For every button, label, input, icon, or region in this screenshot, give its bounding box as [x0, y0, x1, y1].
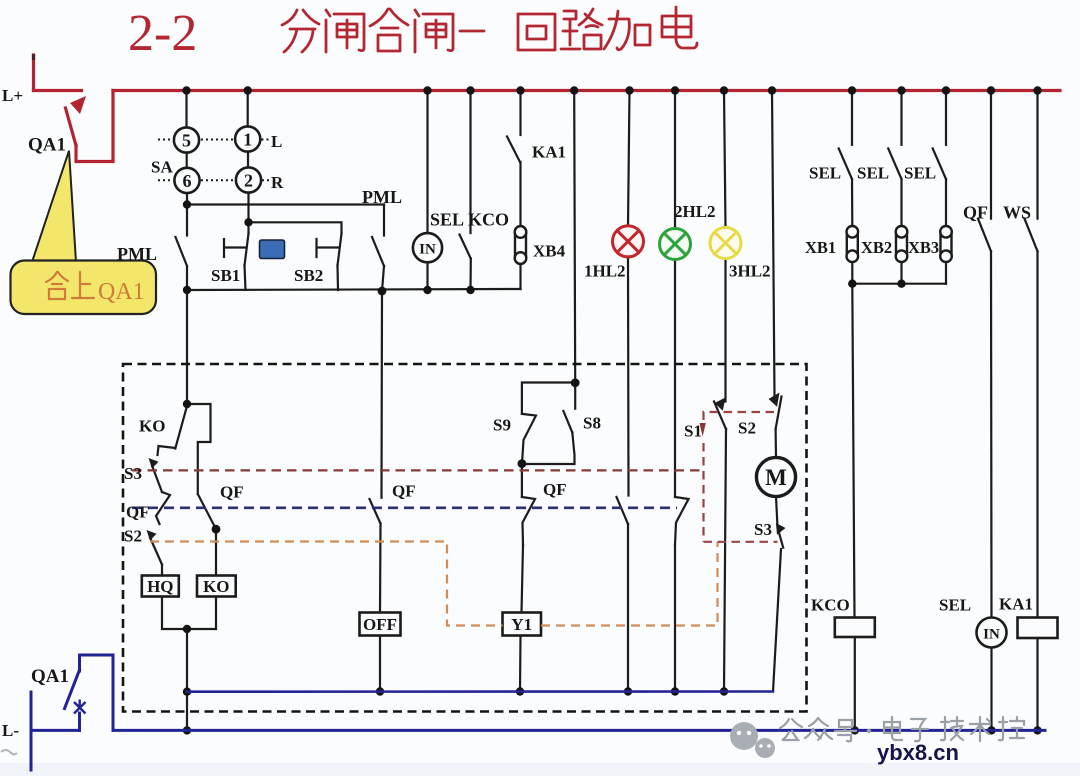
contact QF right blade: [978, 219, 991, 252]
motor M circle: [756, 457, 795, 496]
wire node C horizontal to SB2: [249, 222, 342, 233]
wire IN to rail: [426, 262, 428, 290]
svg-text:SEL: SEL: [809, 164, 841, 183]
wire node G down to blue rails: [186, 629, 188, 730]
char 上 small: [72, 272, 94, 298]
coil Y1 box: [503, 613, 542, 636]
svg-text:QF: QF: [392, 482, 416, 501]
wire WS down to coil KA1: [1036, 251, 1038, 617]
char 众: [805, 718, 832, 740]
char 电: [884, 717, 902, 740]
lamp 2HL2 green: [660, 229, 691, 260]
wire x628 to inner rail: [627, 524, 629, 692]
wire lamp 2HL2 down: [674, 260, 676, 498]
SA selector circle 6: [174, 168, 199, 193]
contact PML right blade: [372, 237, 384, 266]
svg-text:QA1: QA1: [31, 666, 69, 687]
SA selector circle 5: [174, 127, 199, 152]
wire SEL2 to fuse XB2: [900, 179, 902, 226]
SA selector circle 1: [235, 126, 260, 151]
dashed annotation path orange left: [150, 542, 503, 626]
arrow S2 left: [147, 530, 157, 541]
wire S1 to inner rail: [724, 429, 726, 692]
wire bus to lamp 2HL2: [674, 91, 676, 229]
svg-text:SEL: SEL: [857, 164, 889, 183]
svg-text:QF: QF: [963, 203, 988, 223]
callout bubble pointer: [32, 151, 76, 262]
svg-text:SEL: SEL: [430, 210, 464, 230]
svg-text:S3: S3: [124, 464, 142, 483]
svg-text:S8: S8: [583, 414, 601, 433]
char 公: [780, 719, 802, 740]
breaker QA1 bottom blade: [65, 670, 80, 709]
breaker QA1 bottom fixed contact: [78, 713, 81, 730]
wire S8 bottom L to node E: [522, 432, 575, 464]
svg-text:KA1: KA1: [532, 143, 566, 162]
pushbutton SB1 actuator: [224, 239, 246, 257]
wire SB1 bottom: [245, 266, 246, 291]
svg-text:QF: QF: [220, 483, 244, 502]
wire main red bus L+: [113, 89, 1060, 92]
wire coil OFF to inner rail: [379, 636, 381, 692]
contact PML left blade: [176, 237, 188, 266]
wire L+ lead vertical: [32, 55, 35, 91]
wire x675 to inner rail: [674, 545, 676, 692]
svg-text:IN: IN: [419, 242, 436, 258]
SA selector circle 2: [236, 167, 261, 192]
svg-text:3HL2: 3HL2: [729, 262, 771, 281]
contact SEL3 blade: [933, 148, 946, 179]
wire bus to SEL contact 1: [851, 91, 853, 145]
fuse link XB3: [940, 226, 952, 262]
svg-text:L+: L+: [2, 86, 23, 105]
pushbutton SB2 actuator: [317, 239, 339, 257]
callout bubble 合上QA1: [11, 261, 157, 315]
wire bus to SEL contact: [469, 91, 471, 234]
svg-text:XB4: XB4: [533, 242, 566, 261]
wire lamp 1HL2 down to QF contact: [627, 257, 630, 496]
contact QF breaker zigzag x521: [522, 497, 535, 545]
breaker QA1 blade: [66, 108, 77, 146]
contact S3 left blade: [152, 466, 162, 493]
contact QF branch blade: [198, 494, 216, 529]
coil KCO box: [835, 618, 875, 638]
watermark text 公众号·电子技术控 gray: [780, 717, 1024, 741]
coil KO box: [197, 576, 236, 597]
svg-text:L-: L-: [2, 721, 19, 740]
wire QF right down to IN lamp: [990, 251, 993, 617]
svg-text:HQ: HQ: [147, 577, 173, 596]
wire S2 to coil HQ: [161, 565, 163, 576]
svg-text:2: 2: [244, 171, 253, 191]
svg-text:5: 5: [182, 131, 191, 151]
dashed annotation path orange right: [541, 542, 718, 626]
dashed enclosure box black: [123, 364, 807, 712]
arrow S3 right: [776, 523, 786, 535]
char 子: [911, 719, 928, 741]
coil KA1 box: [1018, 618, 1058, 639]
wire QF521 to coil Y1: [522, 545, 524, 613]
char 回: [518, 14, 555, 50]
wire motor M to S3: [776, 497, 778, 527]
contact QF blade x628: [617, 497, 629, 524]
wire SEL bottom: [469, 259, 471, 290]
wire XB4 to rail corner: [519, 264, 521, 289]
contact S8 blade: [563, 411, 572, 432]
indicator IN circle top: [413, 233, 442, 262]
svg-text:1: 1: [243, 130, 252, 150]
wire node A down to PML contact: [186, 205, 188, 236]
wire below QA1 blade: [76, 91, 113, 162]
wire bus to SA circle 5: [185, 91, 187, 128]
svg-text:QA1: QA1: [28, 135, 66, 156]
contact SEL blade: [460, 235, 471, 259]
wire coil KCO to blue bus: [854, 637, 856, 730]
contact S2 blade: [776, 397, 782, 429]
wire XB2 to join rail: [900, 262, 902, 284]
wire L+ horizontal stub: [34, 89, 82, 92]
QA1 red arrow marker: [70, 96, 86, 114]
wire coil KO bottom: [215, 597, 217, 630]
wire S2 to motor M: [774, 429, 777, 458]
contact SEL1 blade: [839, 148, 852, 179]
svg-text:R: R: [271, 173, 284, 192]
pushbutton SB1 blue indicator rect: [260, 240, 285, 259]
svg-text:KO: KO: [203, 577, 229, 596]
svg-text:XB2: XB2: [861, 238, 892, 257]
coil OFF box: [360, 613, 401, 636]
wire bus to KA1 contact: [519, 91, 521, 136]
wire coil Y1 to inner rail: [519, 636, 522, 692]
char 控: [999, 717, 1024, 740]
wire bus to WS contact: [1036, 91, 1038, 219]
svg-text:OFF: OFF: [363, 615, 397, 634]
contact SEL2 blade: [888, 148, 901, 179]
svg-text:QF: QF: [126, 503, 150, 522]
svg-text:IN: IN: [983, 627, 1000, 643]
bottom faint band: [0, 763, 1080, 776]
wire coil KA1 to blue bus: [1036, 638, 1038, 730]
wire L- horizontal stub: [31, 729, 80, 732]
wire node E to QF521: [521, 464, 523, 497]
SA dotted links row1: [158, 140, 269, 181]
QA1 bottom star marker: [74, 700, 86, 714]
char 分: [282, 10, 319, 52]
callout text 合上QA1: [46, 272, 94, 299]
pushbutton SB2 blade: [338, 234, 342, 266]
svg-text:XB3: XB3: [908, 238, 939, 257]
arrow S2 right: [769, 393, 780, 407]
wire bus to S2 contact: [772, 91, 775, 397]
contact KO blade: [175, 406, 187, 449]
dashed highlight rect dark red around S1 S2 M S3: [704, 412, 778, 542]
svg-text:Y1: Y1: [511, 615, 532, 634]
indicator IN circle bottom: [977, 618, 1007, 648]
svg-text:SEL: SEL: [904, 164, 936, 183]
svg-text:S2: S2: [124, 527, 142, 546]
contact S9 breaker zigzag: [522, 414, 536, 464]
dash in title: [460, 30, 484, 33]
wire bus to lamp 1HL2: [628, 91, 630, 226]
svg-text:ybx8.cn: ybx8.cn: [877, 740, 959, 765]
svg-text:M: M: [765, 465, 787, 490]
dashed annotation line navy: [132, 506, 677, 509]
wire circle 6 to node A: [186, 193, 188, 205]
fuse link XB2: [896, 226, 908, 262]
fuse link XB1: [847, 226, 859, 262]
svg-text:2HL2: 2HL2: [674, 202, 716, 221]
contact KA1 blade: [507, 137, 520, 163]
wire circle 2 to node C: [247, 193, 249, 223]
wire common rail y290: [187, 289, 521, 290]
watermark wechat icon: [730, 722, 775, 758]
dark tip of L+ lead: [32, 54, 35, 60]
fuse link XB4: [515, 226, 527, 264]
svg-text:SB2: SB2: [294, 266, 323, 285]
svg-text:XB1: XB1: [805, 238, 836, 257]
wire bus to lamp IN: [426, 91, 428, 234]
wire node A horizontal to right PML branch: [187, 203, 384, 205]
svg-text:SA: SA: [151, 158, 173, 177]
wire inner blue rail: [187, 690, 773, 693]
svg-text:S1: S1: [684, 422, 702, 441]
wire SEL3 to fuse XB3: [945, 179, 947, 226]
svg-text:S9: S9: [493, 416, 511, 435]
svg-text:S2: S2: [738, 419, 756, 438]
coil HQ box: [142, 576, 179, 597]
lamp 3HL2 yellow: [710, 228, 741, 259]
wire coil HQ bottom: [162, 597, 216, 630]
arrow S3 left: [149, 458, 159, 469]
char 电: [662, 7, 697, 48]
svg-text:S3: S3: [754, 520, 772, 539]
wire KO bottom tick: [158, 446, 176, 455]
char 闸: [326, 10, 364, 52]
contact breaker zigzag x675: [675, 497, 689, 545]
svg-text:PML: PML: [362, 187, 402, 207]
wire KA1 to fuse XB4: [519, 162, 521, 226]
wire lamp 3HL2 down to S1: [724, 259, 726, 402]
wire XB join down to coil KCO: [852, 284, 854, 618]
contact S1 blade: [714, 402, 726, 430]
wire XB join rail: [852, 283, 946, 285]
wire IN lamp to blue bus: [990, 648, 992, 731]
wire PML right bottom to node D: [382, 266, 384, 291]
svg-text:1HL2: 1HL2: [584, 262, 626, 281]
svg-text:QF: QF: [543, 480, 567, 499]
svg-text:KA1: KA1: [999, 595, 1033, 614]
wire S3 to inner rail end: [773, 549, 781, 692]
contact QF middle blade: [370, 499, 381, 524]
wire main blue bus L-: [113, 729, 1045, 732]
svg-text:QA1: QA1: [98, 279, 145, 305]
wire S9 upper L: [522, 383, 575, 414]
wire bus to S9 S8 node: [574, 91, 575, 383]
wire right PML contact top: [383, 205, 385, 236]
wire L- lead vertical blue: [30, 692, 33, 770]
char 路: [561, 9, 602, 49]
wire QA1 bottom top lead: [80, 655, 114, 730]
annotation arrow dark red at S1: [700, 423, 706, 437]
svg-text:L: L: [271, 132, 282, 151]
char 术: [970, 717, 990, 741]
svg-text:SEL: SEL: [939, 596, 971, 615]
contact S2 left blade: [150, 538, 162, 565]
char 加: [604, 11, 650, 50]
wire XB1 to join rail: [851, 262, 853, 284]
lamp 1HL2 red: [613, 226, 644, 257]
svg-text:PML: PML: [117, 244, 157, 264]
wire bus to SA circle 1: [247, 91, 249, 127]
wire XB3 to join rail: [945, 262, 947, 284]
wire QF middle to coil OFF: [379, 524, 382, 613]
wire SEL1 to fuse XB1: [851, 179, 853, 226]
power rail L+ with breaker QA1 (red): [34, 55, 1061, 162]
svg-text:KCO: KCO: [811, 596, 850, 615]
svg-text:SB1: SB1: [211, 266, 240, 285]
title chinese 分闸合闸- 回路加电 (hand-drawn glyphs): [282, 7, 697, 52]
char 合 small: [46, 272, 68, 299]
wire PML bottom to node B: [186, 266, 188, 290]
char 闸: [415, 10, 453, 52]
svg-text:KCO: KCO: [468, 210, 509, 230]
svg-text:WS: WS: [1003, 203, 1031, 223]
wire bus to SEL contact 3: [945, 91, 947, 145]
wire SA circle 1 to 2: [247, 152, 249, 168]
contact S3 blade: [778, 529, 783, 548]
wire bus to lamp 3HL2: [724, 91, 726, 228]
svg-text:KO: KO: [139, 417, 165, 436]
svg-text:2-2: 2-2: [128, 5, 197, 62]
arrow S1: [715, 398, 726, 411]
svg-text:6: 6: [183, 171, 192, 191]
dot separator: [867, 729, 871, 733]
pushbutton SB1 blade: [245, 234, 249, 266]
stray gray squiggle bottom left: [1, 750, 17, 754]
wire node B into box to node F: [186, 290, 188, 404]
wire bus to QF contact right: [990, 91, 992, 219]
char 合: [370, 9, 408, 51]
wire node D down to middle QF: [380, 291, 383, 498]
wire SB2 bottom: [336, 266, 339, 291]
wire bus to SEL contact 2: [900, 91, 902, 145]
wire SA circle 5 to 6: [186, 153, 188, 168]
dashed annotation line brown: [132, 469, 704, 471]
contact QF left breaker zigzag: [156, 492, 170, 524]
char 技: [941, 717, 963, 740]
SA dotted links row2: [158, 179, 269, 181]
wire QF branch to coil KO: [215, 529, 217, 575]
wire node F to right QF branch: [187, 404, 211, 494]
wire node C down to SB1: [247, 222, 249, 233]
contact WS blade: [1025, 219, 1038, 252]
char 号: [835, 720, 856, 741]
wire S8 top: [574, 383, 576, 409]
